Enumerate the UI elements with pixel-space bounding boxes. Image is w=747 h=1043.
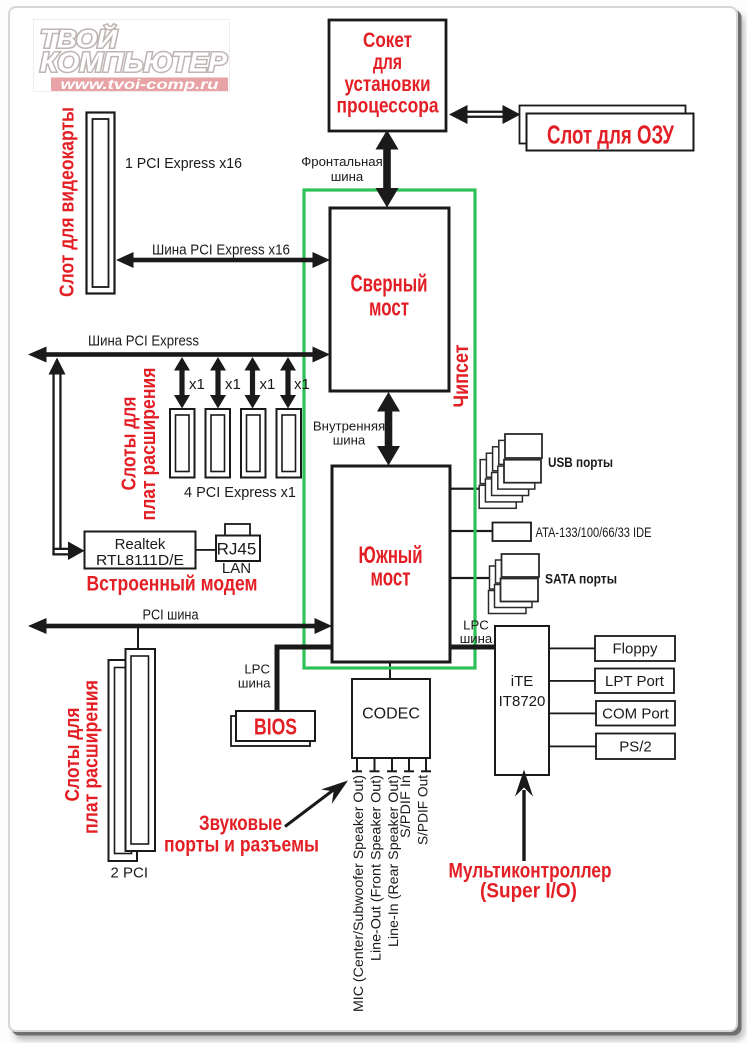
svg-text:шина: шина xyxy=(460,631,493,646)
svg-text:плат расширения: плат расширения xyxy=(138,368,160,521)
label SATA порты xyxy=(545,571,617,587)
svg-text:www.tvoi-comp.ru: www.tvoi-comp.ru xyxy=(61,77,220,92)
RJ45 connector xyxy=(216,524,260,577)
svg-text:x1: x1 xyxy=(189,376,205,393)
Realtek box xyxy=(85,532,196,570)
logo text КОМПЬЮТЕР xyxy=(40,47,227,78)
socket to RAM double arrow xyxy=(449,105,521,124)
label Шина PCI Express x16 xyxy=(152,242,290,259)
svg-text:Чипсет: Чипсет xyxy=(450,345,473,408)
svg-text:S/PDIF In: S/PDIF In xyxy=(397,775,413,838)
LPC wire to BIOS xyxy=(275,645,333,712)
label Слоты для плат расширения lower xyxy=(62,680,103,834)
svg-text:мост: мост xyxy=(371,565,411,592)
svg-text:4 PCI Express x1: 4 PCI Express x1 xyxy=(184,484,296,501)
PCI slot front xyxy=(126,649,156,851)
PCIe x16 bus arrow xyxy=(116,252,330,268)
BIOS stacked box xyxy=(231,711,315,746)
svg-text:Шина PCI Express: Шина PCI Express xyxy=(88,333,199,350)
wire iTE to Floppy xyxy=(549,648,595,650)
svg-text:установки: установки xyxy=(345,73,431,96)
SATA ports stack xyxy=(489,554,540,614)
PCI bus arrow xyxy=(28,618,332,634)
CODEC pin 1 xyxy=(352,758,362,772)
label Мультиконтроллер (Super I/O) xyxy=(449,860,612,903)
svg-text:Внутренняя: Внутренняя xyxy=(313,419,385,434)
label Встроенный модем xyxy=(87,573,258,596)
logo url bar xyxy=(51,77,228,92)
wire iTE to PS/2 xyxy=(549,746,596,748)
svg-text:PS/2: PS/2 xyxy=(619,739,652,756)
label 2 PCI xyxy=(111,865,149,882)
label LPC шина left xyxy=(238,662,271,691)
PS/2 box xyxy=(596,734,675,760)
svg-text:процессора: процессора xyxy=(337,95,439,118)
svg-text:CODEC: CODEC xyxy=(362,706,420,723)
COM Port box xyxy=(596,701,675,726)
svg-text:плат расширения: плат расширения xyxy=(81,680,103,834)
CODEC pin 3 xyxy=(387,758,397,772)
svg-text:Шина PCI Express x16: Шина PCI Express x16 xyxy=(152,242,290,259)
PCIe x1 slot 1 xyxy=(170,409,195,478)
svg-text:шина: шина xyxy=(238,676,271,691)
LAN link double line xyxy=(49,358,85,561)
internal bus arrow xyxy=(377,392,400,466)
svg-text:шина: шина xyxy=(333,433,366,448)
CODEC pin 5 xyxy=(421,758,431,772)
south bridge box xyxy=(332,466,450,662)
svg-text:S/PDIF Out: S/PDIF Out xyxy=(415,775,431,845)
svg-text:2 PCI: 2 PCI xyxy=(111,865,149,882)
svg-text:x1: x1 xyxy=(294,376,310,393)
label 4 PCI Express x1 xyxy=(184,484,296,501)
north bridge box xyxy=(330,208,449,391)
wire SB to ATA xyxy=(450,530,493,532)
svg-text:Floppy: Floppy xyxy=(612,641,658,658)
x1 arrow 4 xyxy=(280,357,310,409)
svg-text:Слот для видеокарты: Слот для видеокарты xyxy=(57,107,79,297)
PCI slot back xyxy=(109,660,138,861)
svg-text:LPT Port: LPT Port xyxy=(605,673,665,690)
pin label Line-Out xyxy=(368,775,384,961)
svg-text:MIC (Center/Subwoofer Speaker: MIC (Center/Subwoofer Speaker Out) xyxy=(350,775,366,1012)
CODEC pin 4 xyxy=(404,758,414,772)
svg-text:Звуковые: Звуковые xyxy=(199,812,282,835)
label LPC шина right xyxy=(460,618,493,647)
wire SB to CODEC xyxy=(389,662,391,679)
wire Realtek to RJ45 xyxy=(196,549,218,551)
label USB порты xyxy=(548,454,613,470)
wire PCI bus to slots xyxy=(137,628,139,650)
front side bus arrow xyxy=(376,130,399,208)
svg-text:шина: шина xyxy=(331,169,364,184)
label Чипсет xyxy=(450,345,473,408)
svg-text:x1: x1 xyxy=(225,376,241,393)
PCIe x1 slot 2 xyxy=(206,409,231,478)
wire SB to SATA xyxy=(450,577,500,579)
svg-text:Фронтальная: Фронтальная xyxy=(301,154,383,169)
pin label S/PDIF Out xyxy=(415,775,431,845)
svg-text:COM Port: COM Port xyxy=(602,706,670,723)
svg-text:SATA порты: SATA порты xyxy=(545,571,617,587)
PCIe x1 slot 4 xyxy=(277,409,302,478)
CODEC box xyxy=(352,679,430,758)
label PCI шина xyxy=(143,607,200,624)
logo text ТВОЙ xyxy=(40,24,118,54)
svg-text:Realtek: Realtek xyxy=(115,536,166,553)
label Слот для видеокарты xyxy=(57,107,79,297)
pin label MIC xyxy=(350,775,366,1012)
chipset green frame xyxy=(304,190,475,668)
iTE IT8720 box xyxy=(495,626,549,775)
label 1 PCI Express x16 xyxy=(125,155,242,172)
svg-text:RJ45: RJ45 xyxy=(217,540,257,559)
svg-text:LPC: LPC xyxy=(244,662,270,677)
svg-text:x1: x1 xyxy=(260,376,276,393)
svg-text:PCI шина: PCI шина xyxy=(143,607,200,624)
label Фронтальная шина xyxy=(301,154,383,184)
label Звуковые порты и разъемы xyxy=(164,812,319,857)
svg-text:мост: мост xyxy=(369,295,409,322)
svg-text:IT8720: IT8720 xyxy=(499,693,546,710)
svg-text:BIOS: BIOS xyxy=(254,714,297,740)
svg-text:Line-Out (Front Speaker Out): Line-Out (Front Speaker Out) xyxy=(368,775,384,961)
ATA IDE box xyxy=(493,523,532,542)
wire SB to USB xyxy=(450,488,480,490)
pin label Line-In xyxy=(385,775,401,947)
CODEC pin 2 xyxy=(370,758,380,772)
svg-text:порты и разъемы: порты и разъемы xyxy=(164,834,319,857)
label Шина PCI Express xyxy=(88,333,199,350)
LPT Port box xyxy=(595,669,674,694)
wire iTE to COM xyxy=(549,713,596,715)
x1 arrow 3 xyxy=(245,357,276,409)
svg-text:Встроенный модем: Встроенный модем xyxy=(87,573,258,596)
wire iTE to LPT xyxy=(549,680,595,682)
PCIe x16 slot xyxy=(87,113,115,294)
audio label arrow xyxy=(285,773,353,826)
svg-text:1 PCI Express x16: 1 PCI Express x16 xyxy=(125,155,242,172)
x1 arrow 2 xyxy=(210,357,241,409)
Floppy box xyxy=(595,636,675,661)
USB ports stack xyxy=(479,434,542,508)
svg-text:RTL8111D/E: RTL8111D/E xyxy=(96,552,184,569)
pin label S/PDIF In xyxy=(397,775,413,838)
super IO arrow xyxy=(515,770,533,862)
label ATA-133/100/66/33 IDE xyxy=(536,524,652,540)
LPC bus wire right xyxy=(450,645,495,650)
socket box xyxy=(329,20,446,131)
svg-text:iTE: iTE xyxy=(511,673,534,690)
label Слоты для плат расширения upper xyxy=(119,368,161,521)
x1 arrow 1 xyxy=(174,357,205,409)
svg-text:КОМПЬЮТЕР: КОМПЬЮТЕР xyxy=(40,47,227,78)
svg-text:ATA-133/100/66/33 IDE: ATA-133/100/66/33 IDE xyxy=(536,524,652,540)
logo box xyxy=(34,20,230,92)
PCI Express bus arrow xyxy=(28,347,330,363)
svg-text:USB порты: USB порты xyxy=(548,454,613,470)
svg-text:для: для xyxy=(373,51,402,74)
svg-text:(Super I/O): (Super I/O) xyxy=(480,880,577,903)
RAM slot stacked box xyxy=(520,106,694,151)
label Внутренняя шина xyxy=(313,419,385,448)
svg-text:Сокет: Сокет xyxy=(363,29,412,52)
svg-text:Слот для ОЗУ: Слот для ОЗУ xyxy=(547,120,675,150)
svg-text:Сверный: Сверный xyxy=(351,271,428,298)
PCIe x1 slot 3 xyxy=(241,409,266,478)
